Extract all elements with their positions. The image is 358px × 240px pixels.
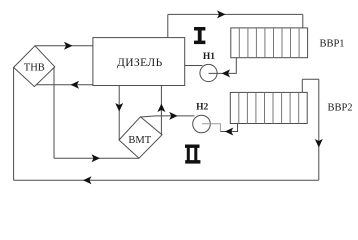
svg-text:Н2: Н2 <box>196 103 208 113</box>
wire THV left vertex down <box>13 67 15 180</box>
wire drop into VVR1 top <box>302 14 304 28</box>
wire diesel right to pump N1 <box>185 65 203 67</box>
heat exchanger THV (diamond) <box>14 46 55 87</box>
svg-text:ДИЗЕЛЬ: ДИЗЕЛЬ <box>117 57 163 69</box>
svg-text:Н1: Н1 <box>203 52 215 62</box>
roman numeral I (circuit 1) <box>194 27 205 44</box>
arrow left on VVR1-N1 wire <box>222 69 231 77</box>
svg-text:ВВР1: ВВР1 <box>319 39 344 50</box>
arrow right on top run <box>217 10 226 18</box>
arrow right on VMT-N2 wire <box>169 112 178 120</box>
wire pump N1 to VVR1 bottom <box>209 58 237 74</box>
radiator VVR2 core sections <box>239 92 299 123</box>
wire VMT right vertex up to diesel bottom <box>160 86 162 135</box>
wire THV top to diesel left <box>35 45 93 47</box>
wire pump N2 out (faint) <box>202 124 220 132</box>
arrow up to diesel <box>157 104 165 113</box>
arrow right on THV-VMT wire <box>92 154 101 162</box>
roman numeral II (circuit 2) <box>185 145 200 164</box>
wire to VMT bottom vertex <box>54 157 139 159</box>
wire diesel left bottom to THV <box>37 84 93 86</box>
radiator VVR2 body <box>230 92 307 123</box>
svg-text:ТНВ: ТНВ <box>24 63 45 74</box>
water-oil heat exchanger VMT (diamond) <box>119 117 162 158</box>
arrow down on right side wire <box>315 139 323 148</box>
pump N2 (circle) <box>193 115 211 133</box>
wire THV right vertex down <box>53 67 55 158</box>
wire bottom return <box>14 179 319 181</box>
wire top run to VVR1 <box>168 13 303 15</box>
radiator VVR1 core sections <box>239 28 299 58</box>
pump N1 (circle) <box>200 64 217 81</box>
arrow right on THV-diesel top wire <box>64 42 73 50</box>
diesel engine block <box>93 38 185 86</box>
arrow down into VMT <box>115 103 123 112</box>
wire VMT top vertex to pump N2 <box>140 116 194 117</box>
arrow left on bottom return wire <box>83 176 92 184</box>
svg-text:ВМТ: ВМТ <box>128 135 151 146</box>
wire diesel top riser <box>167 14 169 37</box>
wire VVR2 bottom to pump N2 <box>220 124 237 132</box>
wire diesel bottom down to VMT left vertex <box>118 86 120 141</box>
arrow left on diesel-THV bottom wire <box>71 81 80 89</box>
arrow left on VVR2-N2 wire <box>225 128 234 136</box>
radiator VVR1 body <box>231 28 308 58</box>
wire VVR2 top to right side <box>302 78 319 80</box>
wire right side down <box>318 79 320 180</box>
wire VVR2 top riser <box>301 79 303 92</box>
svg-text:ВВР2: ВВР2 <box>327 103 352 114</box>
